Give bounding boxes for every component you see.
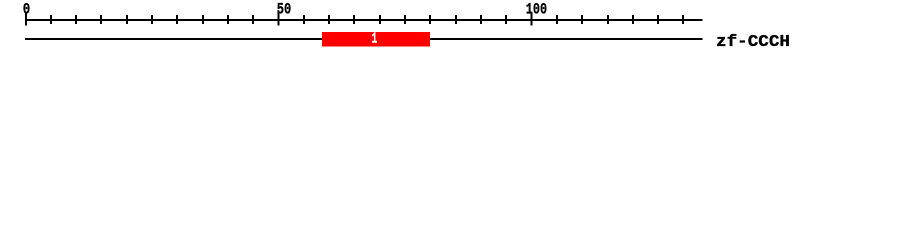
tick 75 [404, 15, 406, 24]
tick 125 [657, 15, 659, 24]
tick 40 [227, 15, 229, 24]
svg-text:zf-CCCH: zf-CCCH [716, 33, 790, 52]
svg-text:50: 50 [277, 0, 292, 18]
tick 15 [100, 15, 102, 24]
tick 120 [632, 15, 634, 24]
ruler axis line [25, 19, 703, 21]
tick 65 [353, 15, 355, 24]
protein backbone line [25, 38, 703, 40]
tick 95 [505, 15, 507, 24]
tick 5 [50, 15, 52, 24]
tick 80 [429, 15, 431, 24]
tick 0 (major) [25, 12, 27, 26]
tick 55 [303, 15, 305, 24]
tick 100 (major) [531, 12, 533, 26]
tick 130 [682, 15, 684, 24]
tick 10 [75, 15, 77, 24]
tick 110 [581, 15, 583, 24]
tick 105 [556, 15, 558, 24]
tick 70 [379, 15, 381, 24]
svg-text:100: 100 [526, 0, 547, 18]
tick 50 (major) [278, 12, 280, 26]
tick 20 [126, 15, 128, 24]
tick 85 [455, 15, 457, 24]
tick 45 [252, 15, 254, 24]
tick 90 [480, 15, 482, 24]
domain box 1 (red) [322, 32, 430, 47]
tick 25 [151, 15, 153, 24]
tick 60 [328, 15, 330, 24]
tick 35 [202, 15, 204, 24]
tick 30 [176, 15, 178, 24]
tick 115 [607, 15, 609, 24]
svg-text:0: 0 [23, 0, 31, 18]
svg-text:1: 1 [372, 31, 378, 48]
